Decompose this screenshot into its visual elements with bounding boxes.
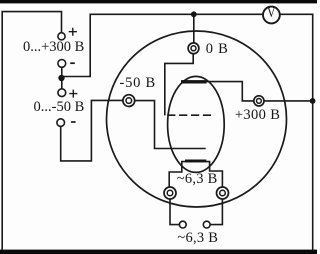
wire: terminal - source1 to terminal + source2 through dot A <box>61 63 63 89</box>
node top bus junction <box>191 11 197 17</box>
minus sign source1 <box>70 62 75 64</box>
open plug circle right ~6.3V <box>203 221 210 228</box>
plus sign source1 <box>69 28 77 36</box>
wire: top bus junction down to 0V terminal <box>193 14 195 43</box>
terminal - of source 0...-50V <box>57 119 65 127</box>
terminal heater left (double ring) <box>164 187 176 199</box>
label -50 V <box>120 76 156 91</box>
heater filament loop <box>169 162 222 188</box>
terminal 0V (double ring) <box>188 43 199 54</box>
label 0...-50 V <box>34 100 85 115</box>
wire: -50V terminal to grid electrode G <box>134 101 206 149</box>
terminal - of source 0...+300V <box>58 60 66 68</box>
wire: +300V terminal to right bus junction <box>264 100 313 102</box>
terminal -50V (double ring) <box>123 95 135 107</box>
plus sign source2 <box>69 90 77 98</box>
terminal +300V (double ring) <box>254 96 264 106</box>
terminal heater right (double ring) <box>217 187 229 199</box>
label 0 V <box>206 42 229 57</box>
minus sign source2 <box>71 121 76 123</box>
CRT bulb (big circle) <box>107 31 287 207</box>
label V of voltmeter <box>267 6 275 21</box>
beam axis dashed line <box>167 114 211 116</box>
wire: left loop from terminal + of source1 up, left, down left edge to bottom bar <box>2 12 61 251</box>
label ~6.3 V lower <box>177 231 218 246</box>
open plug circle left ~6.3V <box>179 221 186 228</box>
wire: node dot A to top bus, right edge down to bottom bar <box>62 14 313 250</box>
wire: 0V terminal down-left into tube (focus electrode) <box>165 53 193 115</box>
voltmeter V1 <box>263 7 280 24</box>
wire: anode bar to +300V terminal <box>206 82 254 101</box>
label 0...+300 V <box>23 40 84 55</box>
terminal + of source 0...-50V <box>58 89 66 97</box>
node A (junction dot between sources) <box>58 75 64 81</box>
cathode bar <box>185 160 206 163</box>
bottom border bar <box>0 250 317 254</box>
label ~6.3 V upper <box>177 172 218 187</box>
wire: source2 minus loop to -50V terminal <box>61 100 124 160</box>
top border bar <box>0 0 317 3</box>
anode plate bar <box>181 80 207 83</box>
node right bus junction <box>310 98 316 104</box>
electron gun envelope (inner ellipse) <box>168 76 225 172</box>
wire: heater terminals down to open plug circles <box>170 199 179 225</box>
terminal + of source 0...+300V <box>58 33 65 40</box>
label +300 V <box>235 108 280 123</box>
